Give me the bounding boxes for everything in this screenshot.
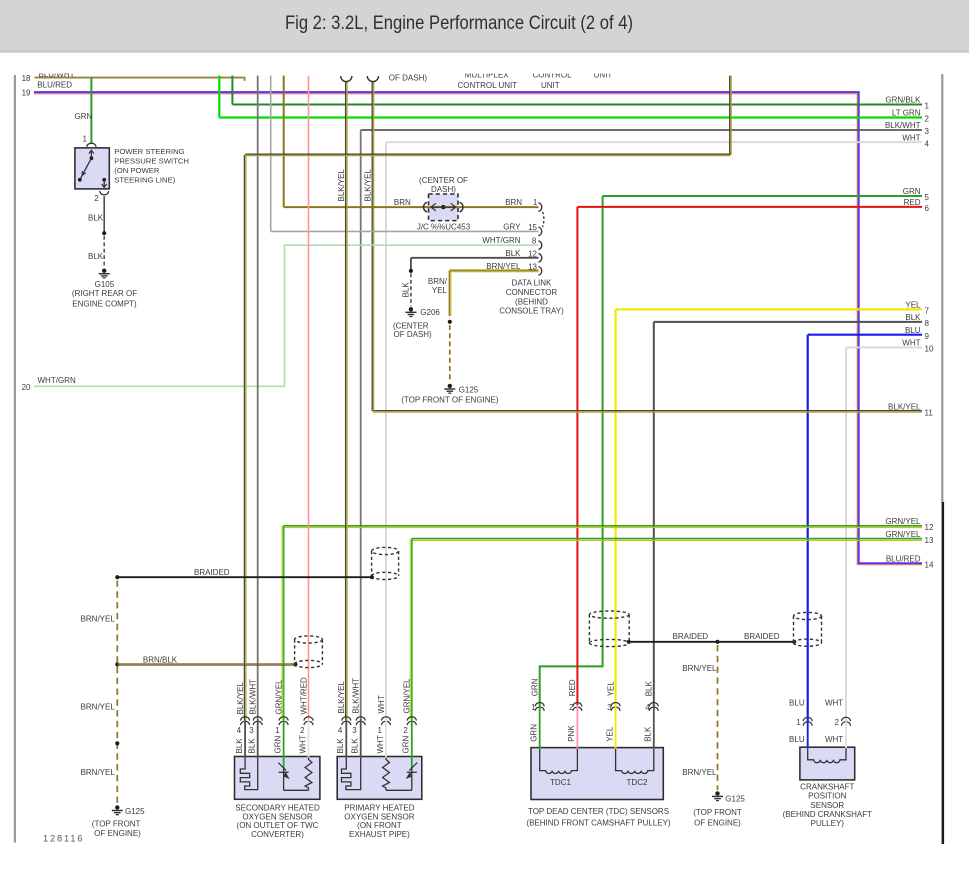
svg-text:GRN: GRN — [273, 736, 282, 754]
svg-text:2: 2 — [94, 194, 99, 203]
svg-text:GRN: GRN — [402, 736, 411, 754]
svg-text:2: 2 — [403, 726, 408, 735]
svg-text:(BEHIND CRANKSHAFT: (BEHIND CRANKSHAFT — [783, 810, 872, 819]
svg-text:CONTROL UNIT: CONTROL UNIT — [457, 81, 517, 90]
svg-text:BLK: BLK — [905, 313, 921, 322]
svg-text:4: 4 — [338, 726, 343, 735]
svg-text:OF DASH): OF DASH) — [394, 330, 433, 339]
svg-text:G125: G125 — [125, 807, 145, 816]
svg-text:2: 2 — [569, 703, 574, 712]
svg-text:STEERING LINE): STEERING LINE) — [114, 175, 176, 184]
svg-text:WHT/GRN: WHT/GRN — [482, 236, 520, 245]
svg-text:Fig 2: 3.2L, Engine Performanc: Fig 2: 3.2L, Engine Performance Circuit … — [285, 13, 633, 34]
svg-text:PNK: PNK — [567, 725, 576, 742]
svg-text:(RIGHT REAR OF: (RIGHT REAR OF — [72, 289, 137, 298]
svg-text:BRN/BLK: BRN/BLK — [143, 656, 178, 665]
svg-text:OXYGEN SENSOR: OXYGEN SENSOR — [344, 812, 414, 821]
svg-text:G125: G125 — [725, 795, 745, 804]
svg-text:2: 2 — [925, 115, 930, 124]
svg-text:BLU: BLU — [905, 326, 921, 335]
svg-text:GRN: GRN — [531, 678, 540, 696]
svg-text:PRESSURE SWITCH: PRESSURE SWITCH — [114, 157, 189, 166]
svg-text:BLK/YEL: BLK/YEL — [364, 168, 373, 201]
svg-text:BLK: BLK — [88, 214, 104, 223]
svg-text:ENGINE COMPT): ENGINE COMPT) — [72, 299, 137, 308]
svg-text:3: 3 — [925, 127, 930, 136]
svg-text:BRAIDED: BRAIDED — [673, 632, 709, 641]
svg-text:4: 4 — [645, 703, 650, 712]
svg-text:G125: G125 — [459, 385, 479, 394]
svg-text:WHT: WHT — [377, 695, 386, 713]
svg-text:BLK: BLK — [505, 249, 521, 258]
svg-text:5: 5 — [925, 193, 930, 202]
svg-text:12: 12 — [925, 523, 934, 532]
svg-text:13: 13 — [925, 536, 934, 545]
svg-text:BLK: BLK — [248, 738, 257, 754]
svg-text:CRANKSHAFT: CRANKSHAFT — [800, 782, 854, 791]
svg-text:20: 20 — [22, 383, 31, 392]
svg-text:8: 8 — [532, 237, 537, 246]
svg-text:BLK: BLK — [88, 252, 104, 261]
svg-text:1: 1 — [925, 102, 930, 111]
svg-text:128116: 128116 — [43, 834, 84, 844]
svg-text:EXHAUST PIPE): EXHAUST PIPE) — [349, 830, 410, 839]
svg-text:BRN/YEL: BRN/YEL — [682, 664, 717, 673]
svg-text:GRN/YEL: GRN/YEL — [274, 679, 283, 715]
svg-text:(TOP FRONT: (TOP FRONT — [92, 819, 141, 828]
svg-text:TOP DEAD CENTER (TDC) SENSORS: TOP DEAD CENTER (TDC) SENSORS — [528, 807, 669, 816]
svg-text:19: 19 — [22, 88, 31, 97]
svg-text:1: 1 — [275, 726, 280, 735]
svg-text:BLK/WHT: BLK/WHT — [352, 678, 361, 714]
svg-text:BRN: BRN — [505, 198, 522, 207]
svg-text:6: 6 — [925, 204, 930, 213]
svg-text:TDC1: TDC1 — [550, 778, 571, 787]
svg-text:BLK/YEL: BLK/YEL — [888, 403, 921, 412]
svg-text:CONSOLE TRAY): CONSOLE TRAY) — [499, 307, 564, 316]
svg-text:CONNECTOR: CONNECTOR — [506, 288, 558, 297]
svg-text:11: 11 — [925, 409, 934, 418]
svg-text:(ON OUTLET OF TWC: (ON OUTLET OF TWC — [237, 821, 319, 830]
svg-text:SENSOR: SENSOR — [810, 801, 844, 810]
svg-text:7: 7 — [925, 307, 930, 316]
svg-text:G206: G206 — [420, 308, 440, 317]
svg-text:(TOP FRONT: (TOP FRONT — [693, 808, 742, 817]
svg-text:YEL: YEL — [606, 681, 615, 697]
svg-text:GRN: GRN — [903, 187, 921, 196]
svg-text:1: 1 — [531, 703, 536, 712]
svg-text:3: 3 — [607, 703, 612, 712]
svg-text:12: 12 — [528, 249, 537, 258]
svg-text:RED: RED — [568, 679, 577, 696]
svg-text:BLK/YEL: BLK/YEL — [337, 680, 346, 713]
svg-text:TDC2: TDC2 — [627, 778, 648, 787]
svg-text:2: 2 — [835, 718, 840, 727]
svg-text:14: 14 — [925, 561, 934, 570]
svg-text:SECONDARY HEATED: SECONDARY HEATED — [235, 804, 320, 813]
svg-text:GRN: GRN — [530, 724, 539, 742]
svg-text:3: 3 — [352, 726, 357, 735]
svg-text:13: 13 — [528, 262, 537, 271]
svg-text:BLK/WHT: BLK/WHT — [249, 679, 258, 715]
svg-text:3: 3 — [249, 726, 254, 735]
svg-text:(BEHIND FRONT CAMSHAFT PULLEY): (BEHIND FRONT CAMSHAFT PULLEY) — [526, 818, 671, 827]
svg-text:WHT: WHT — [376, 735, 385, 753]
svg-text:10: 10 — [925, 345, 934, 354]
svg-text:BRAIDED: BRAIDED — [744, 632, 780, 641]
svg-text:1: 1 — [83, 135, 88, 144]
svg-text:CONVERTER): CONVERTER) — [251, 830, 304, 839]
svg-text:1: 1 — [533, 198, 538, 207]
svg-text:BLU: BLU — [789, 735, 805, 744]
svg-text:BRN/YEL: BRN/YEL — [486, 262, 521, 271]
svg-text:BLK: BLK — [336, 738, 345, 754]
svg-text:4: 4 — [237, 726, 242, 735]
svg-text:LT GRN: LT GRN — [892, 109, 921, 118]
svg-text:BRN: BRN — [394, 198, 411, 207]
svg-text:WHT: WHT — [902, 133, 920, 142]
svg-text:(TOP FRONT OF ENGINE): (TOP FRONT OF ENGINE) — [401, 395, 499, 404]
svg-text:BLK/YEL: BLK/YEL — [337, 168, 346, 201]
svg-text:OXYGEN SENSOR: OXYGEN SENSOR — [242, 812, 312, 821]
svg-text:PULLEY): PULLEY) — [811, 819, 845, 828]
svg-text:BLK: BLK — [645, 681, 654, 697]
svg-text:YEL: YEL — [905, 301, 921, 310]
svg-text:GRN/YEL: GRN/YEL — [885, 517, 921, 526]
svg-text:BRN/YEL: BRN/YEL — [81, 614, 116, 623]
svg-text:1: 1 — [796, 718, 801, 727]
svg-text:18: 18 — [22, 74, 31, 83]
svg-text:WHT/RED: WHT/RED — [299, 677, 308, 715]
svg-text:BLK: BLK — [402, 282, 411, 298]
svg-text:GRN/YEL: GRN/YEL — [403, 678, 412, 714]
svg-text:15: 15 — [528, 223, 537, 232]
svg-text:GRN: GRN — [75, 112, 93, 121]
svg-text:OF ENGINE): OF ENGINE) — [94, 829, 141, 838]
svg-text:BRN/YEL: BRN/YEL — [81, 768, 116, 777]
svg-text:RED: RED — [904, 198, 921, 207]
svg-text:POWER STEERING: POWER STEERING — [114, 147, 184, 156]
svg-text:DATA LINK: DATA LINK — [512, 279, 552, 288]
svg-text:BLK/WHT: BLK/WHT — [885, 121, 921, 130]
svg-text:BLU/RED: BLU/RED — [886, 555, 921, 564]
svg-text:DASH): DASH) — [431, 185, 456, 194]
svg-text:BLK: BLK — [644, 726, 653, 742]
svg-text:1: 1 — [378, 726, 383, 735]
svg-text:BRN/YEL: BRN/YEL — [81, 703, 116, 712]
svg-text:(ON POWER: (ON POWER — [114, 166, 160, 175]
svg-text:WHT: WHT — [825, 735, 843, 744]
svg-text:OF ENGINE): OF ENGINE) — [694, 818, 741, 827]
svg-text:9: 9 — [925, 332, 930, 341]
svg-text:YEL: YEL — [432, 286, 448, 295]
svg-text:GRY: GRY — [503, 223, 521, 232]
svg-text:BLK: BLK — [235, 738, 244, 754]
svg-text:GRN/YEL: GRN/YEL — [885, 530, 921, 539]
svg-text:BLU: BLU — [789, 699, 805, 708]
svg-text:YEL: YEL — [605, 726, 614, 742]
svg-text:WHT: WHT — [902, 339, 920, 348]
svg-text:WHT/GRN: WHT/GRN — [38, 376, 76, 385]
svg-text:4: 4 — [925, 139, 930, 148]
svg-text:BRN/YEL: BRN/YEL — [682, 768, 717, 777]
svg-text:WHT: WHT — [298, 735, 307, 753]
svg-text:UNIT: UNIT — [541, 81, 560, 90]
svg-text:BRAIDED: BRAIDED — [194, 568, 230, 577]
svg-text:(ON FRONT: (ON FRONT — [357, 821, 402, 830]
svg-text:2: 2 — [300, 726, 305, 735]
svg-text:PRIMARY HEATED: PRIMARY HEATED — [344, 804, 414, 813]
svg-text:POSITION: POSITION — [808, 792, 846, 801]
svg-text:J/C %%UC453: J/C %%UC453 — [417, 223, 471, 232]
svg-text:OF DASH): OF DASH) — [389, 74, 428, 83]
svg-text:WHT: WHT — [825, 699, 843, 708]
svg-text:G105: G105 — [95, 280, 115, 289]
svg-text:(BEHIND: (BEHIND — [515, 297, 548, 306]
svg-text:BLK/YEL: BLK/YEL — [236, 681, 245, 714]
svg-text:BLU/RED: BLU/RED — [37, 81, 72, 90]
svg-text:BLK: BLK — [351, 738, 360, 754]
svg-text:GRN/BLK: GRN/BLK — [885, 96, 921, 105]
svg-text:8: 8 — [925, 319, 930, 328]
